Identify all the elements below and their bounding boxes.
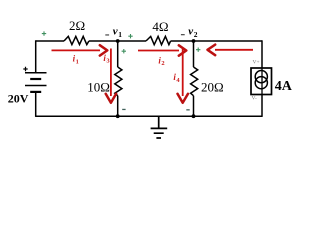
battery bottom lead xyxy=(35,92,37,117)
current arrow i3 shaft xyxy=(110,49,112,97)
resistor R4 20ohm zigzag xyxy=(191,67,198,96)
resistor R3 10ohm zigzag xyxy=(115,67,122,96)
polarity minus (gray) right of 2ohm xyxy=(105,34,109,35)
svg-text:V+: V+ xyxy=(253,60,260,66)
svg-text:V-: V- xyxy=(252,96,257,102)
svg-text:20Ω: 20Ω xyxy=(201,80,224,95)
svg-text:10Ω: 10Ω xyxy=(87,80,110,95)
wire node v1 to 4-ohm xyxy=(118,40,146,42)
current source I1 circle lower xyxy=(255,77,267,89)
current arrow i2 shaft xyxy=(138,50,179,52)
svg-text:v: v xyxy=(113,25,118,37)
current arrow i1 shaft xyxy=(52,49,101,51)
svg-text:2: 2 xyxy=(161,60,164,67)
resistor R3 10ohm top lead xyxy=(117,41,119,67)
polarity minus (teal) bottom of 20ohm xyxy=(186,109,189,110)
resistor R2 4ohm zigzag xyxy=(146,36,171,44)
polarity plus (green) top of 20ohm xyxy=(196,48,200,52)
node v1 dot xyxy=(116,39,120,43)
current arrow 4A head xyxy=(208,45,216,56)
polarity minus (gray) right of 4ohm xyxy=(181,34,185,35)
battery plus sign xyxy=(23,67,27,71)
current source I1 inner lead xyxy=(261,68,263,95)
battery plate short 1 xyxy=(30,78,41,80)
svg-text:4Ω: 4Ω xyxy=(152,19,168,34)
wire top-left segment (battery to 2-ohm) xyxy=(36,40,64,42)
current arrow i4 shaft xyxy=(182,49,184,97)
polarity plus (green) left of 2ohm xyxy=(42,31,46,35)
wire node v2 to top-right corner xyxy=(194,40,263,42)
svg-text:4A: 4A xyxy=(275,79,293,94)
wire current source bottom lead xyxy=(261,95,263,117)
wire right vertical (top corner to current source) xyxy=(261,40,263,68)
current arrow i3 head xyxy=(106,94,116,103)
resistor R4 20ohm top lead xyxy=(193,41,195,67)
current arrow i4 head xyxy=(178,94,189,103)
battery plate long 2 xyxy=(25,85,47,87)
battery V 20V top lead xyxy=(35,40,37,72)
current arrow 4A (pointing left) shaft xyxy=(215,49,253,51)
svg-text:1: 1 xyxy=(76,58,79,65)
ground symbol xyxy=(151,116,168,138)
polarity plus (green) top of 10ohm xyxy=(122,49,126,53)
svg-text:2Ω: 2Ω xyxy=(69,18,85,33)
node v2 dot xyxy=(192,39,196,43)
current arrow i1 head xyxy=(100,45,108,55)
node bottom of 20ohm dot xyxy=(192,114,196,118)
svg-text:20V: 20V xyxy=(8,91,29,105)
resistor R4 20ohm bottom lead xyxy=(193,96,195,117)
svg-text:v: v xyxy=(188,25,193,37)
node bottom of 10ohm dot xyxy=(116,114,120,118)
current source I1 box xyxy=(251,68,272,95)
polarity minus (teal) bottom of 10ohm xyxy=(122,109,125,110)
resistor R3 10ohm bottom lead xyxy=(117,96,119,117)
resistor R1 2ohm zigzag xyxy=(64,36,89,44)
battery plate long 1 xyxy=(25,72,47,74)
svg-text:2: 2 xyxy=(194,30,198,39)
wire 4-ohm to node v2 xyxy=(171,40,194,42)
polarity plus (green) left of 4ohm xyxy=(128,34,132,38)
current source I1 circle upper xyxy=(255,71,267,83)
wire 2-ohm to node v1 xyxy=(89,40,118,42)
battery plate short 2 xyxy=(30,91,41,93)
current arrow i2 head xyxy=(179,45,187,55)
svg-text:1: 1 xyxy=(118,30,122,39)
wire bottom (full run) xyxy=(36,115,262,117)
